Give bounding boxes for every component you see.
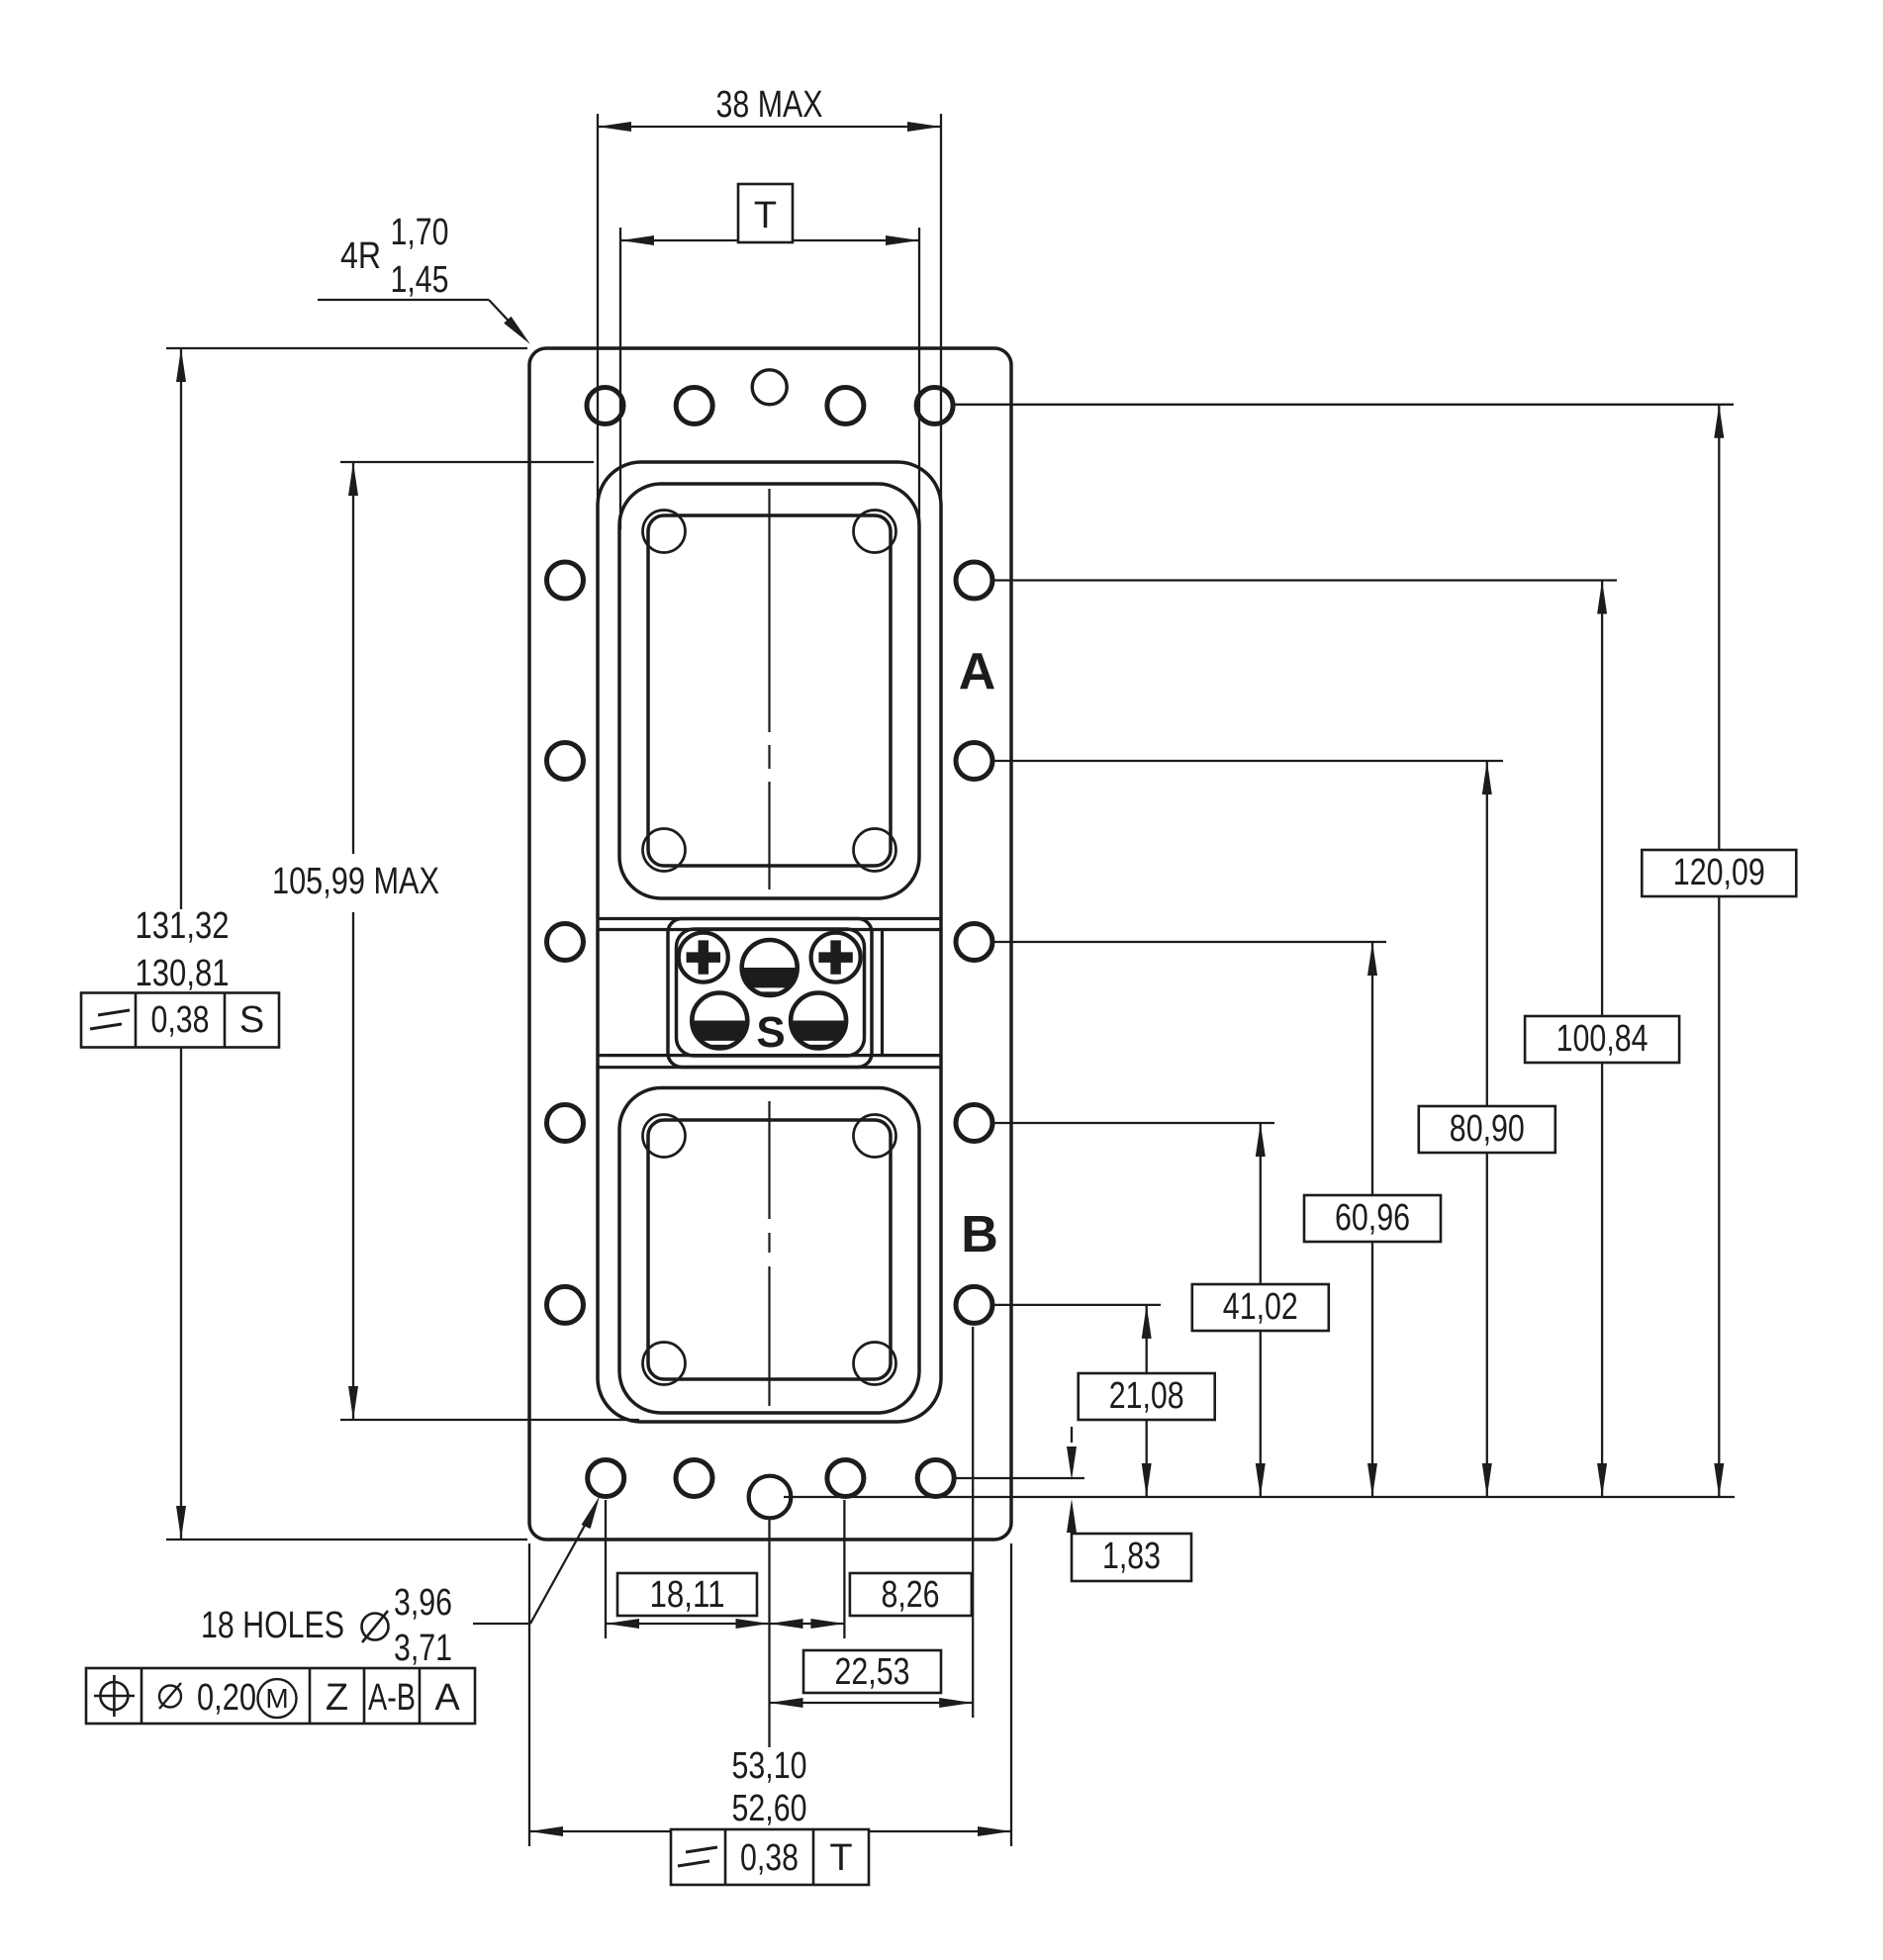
hole R4 right column	[956, 1105, 992, 1142]
dim 21,08 line and arrows	[1142, 1305, 1152, 1497]
extension line right hole column	[972, 1327, 974, 1718]
phillips screw right	[811, 933, 861, 982]
svg-text:B: B	[961, 1206, 998, 1263]
dim 18,11 line and arrows	[606, 1619, 770, 1629]
svg-text:S: S	[756, 1008, 785, 1057]
leader from hole R4	[992, 1122, 1274, 1124]
hole L1 left column	[547, 562, 584, 599]
svg-text:131,32: 131,32	[136, 905, 230, 947]
top index hole	[752, 370, 787, 405]
svg-text:53,10: 53,10	[732, 1745, 807, 1787]
hole L2 left column	[547, 743, 584, 780]
cavity B corner relief arcs	[643, 1115, 896, 1385]
dim 53,10 extension lines	[529, 1543, 1011, 1846]
dim 105,99 extension lines	[340, 462, 639, 1420]
svg-text:60,96: 60,96	[1335, 1197, 1410, 1239]
note 18 HOLES leader	[473, 1496, 600, 1624]
hole B2 bottom row	[676, 1460, 712, 1497]
svg-text:0,20: 0,20	[197, 1677, 256, 1719]
leader from hole R2	[992, 760, 1503, 762]
jackscrew insert inner box	[677, 929, 865, 1056]
leader from hole R3	[992, 941, 1386, 943]
dim 38 MAX line and arrows	[598, 122, 941, 132]
connector flange plate outline	[529, 348, 1011, 1540]
position symbol	[94, 1675, 135, 1717]
slotted jackscrew bottom right	[791, 993, 846, 1049]
svg-text:1,83: 1,83	[1102, 1536, 1161, 1577]
svg-text:1,70: 1,70	[391, 212, 449, 253]
dim 100,84 line and arrows	[1597, 581, 1607, 1498]
position tolerance frame	[86, 1668, 475, 1724]
ordinate baseline	[784, 1496, 1735, 1498]
svg-text:22,53: 22,53	[835, 1651, 910, 1693]
dim 18,11 box	[617, 1573, 757, 1616]
svg-text:A-B: A-B	[368, 1677, 416, 1719]
svg-text:S: S	[239, 999, 264, 1041]
svg-text:8,26: 8,26	[882, 1574, 940, 1616]
dim 21,08 box	[1079, 1373, 1215, 1420]
hole R2 right column	[956, 743, 992, 780]
svg-text:130,81: 130,81	[136, 953, 230, 994]
dim 105,99 line and arrows	[348, 462, 358, 1420]
dim 1,83 box	[1072, 1534, 1191, 1581]
dim 22,53 line and arrows	[770, 1698, 974, 1708]
extension line bottom index hole	[768, 1520, 770, 1747]
dim T extension lines	[620, 228, 919, 529]
hole R3 right column	[956, 924, 992, 961]
parallelism symbol	[90, 1010, 130, 1029]
svg-text:T: T	[754, 195, 777, 236]
svg-text:4R: 4R	[340, 235, 381, 277]
dim 22,53 box	[803, 1650, 941, 1693]
dim 80,90 box	[1419, 1106, 1555, 1153]
svg-text:105,99 MAX: 105,99 MAX	[272, 861, 439, 902]
hole H2 top row	[676, 388, 712, 424]
slotted jackscrew top center	[742, 940, 798, 995]
cavity A corner relief arcs	[643, 511, 896, 872]
svg-text:M: M	[265, 1683, 288, 1714]
cavity B centerline	[768, 1101, 770, 1406]
cavity B window frame	[619, 1088, 919, 1414]
svg-text:3,71: 3,71	[394, 1628, 452, 1669]
bottom index hole	[749, 1476, 792, 1519]
jackscrew insert outer box	[668, 919, 872, 1068]
dim 100,84 box	[1525, 1016, 1679, 1063]
mating face shell outline	[598, 462, 941, 1422]
svg-text:0,38: 0,38	[151, 999, 210, 1041]
svg-text:1,45: 1,45	[391, 259, 449, 301]
dim 120,09 line and arrows	[1714, 405, 1724, 1497]
svg-text:Z: Z	[326, 1677, 348, 1719]
dim 38 MAX extension lines	[598, 114, 941, 510]
hole R5 right column	[956, 1286, 992, 1323]
cavity B insert opening	[648, 1120, 891, 1379]
hole R1 right column	[956, 562, 992, 599]
cavity A window frame	[619, 484, 919, 898]
dim 131,32 extension lines	[166, 348, 527, 1540]
note 4R leader	[318, 300, 530, 344]
svg-text:120,09: 120,09	[1673, 852, 1765, 893]
hole H3 top row	[827, 388, 864, 424]
hole H4 top row	[916, 388, 953, 424]
svg-text:80,90: 80,90	[1450, 1108, 1525, 1150]
cavity A insert opening	[648, 515, 891, 866]
dim 120,09 box	[1642, 850, 1796, 896]
svg-text:41,02: 41,02	[1223, 1286, 1298, 1328]
svg-text:21,08: 21,08	[1109, 1375, 1184, 1417]
svg-text:A: A	[959, 643, 996, 700]
dim T line and arrows	[620, 235, 919, 245]
leader from hole H4	[955, 404, 1734, 406]
dim 41,02 line and arrows	[1256, 1123, 1266, 1497]
svg-text:18,11: 18,11	[650, 1574, 725, 1616]
leader from hole R1	[992, 579, 1617, 581]
hole B1 bottom row	[588, 1460, 624, 1497]
hole B4 bottom row	[917, 1460, 954, 1497]
hole B3 bottom row	[827, 1460, 864, 1497]
cavity A centerline	[768, 489, 770, 889]
slotted jackscrew bottom left	[692, 993, 747, 1049]
svg-text:38 MAX: 38 MAX	[716, 84, 823, 126]
svg-text:T: T	[829, 1837, 852, 1879]
svg-text:52,60: 52,60	[732, 1788, 807, 1829]
dim 60,96 box	[1304, 1195, 1441, 1242]
diameter symbol large	[362, 1611, 389, 1642]
leader from hole R5	[992, 1304, 1161, 1306]
hole L3 left column	[547, 924, 584, 961]
hole H1 top row	[587, 388, 623, 424]
extension line hole B1	[605, 1500, 607, 1638]
dim 41,02 box	[1192, 1284, 1329, 1331]
parallelism symbol bottom	[678, 1847, 717, 1866]
dim 131,32 line and arrows	[176, 348, 186, 1540]
center jackscrew bay rails	[598, 919, 941, 1068]
svg-text:100,84: 100,84	[1556, 1018, 1648, 1060]
hole L5 left column	[547, 1286, 584, 1323]
dim 1,83 arrows	[1067, 1427, 1077, 1533]
modifier M circle	[258, 1679, 297, 1718]
dim 8,26 box	[850, 1573, 972, 1616]
dim T box	[738, 184, 793, 242]
svg-text:A: A	[434, 1677, 460, 1719]
svg-text:3,96: 3,96	[394, 1582, 452, 1624]
svg-text:18 HOLES: 18 HOLES	[201, 1605, 344, 1646]
jackscrew insert key tab line	[881, 931, 884, 1056]
datum feature frame S	[81, 993, 279, 1048]
flatness frame T	[671, 1829, 869, 1885]
hole L4 left column	[547, 1105, 584, 1142]
dim 53,10 line and arrows	[529, 1826, 1011, 1836]
diameter symbol small	[159, 1683, 181, 1709]
extension line hole B3	[843, 1500, 845, 1638]
dim 60,96 line and arrows	[1367, 942, 1377, 1497]
svg-text:0,38: 0,38	[740, 1837, 799, 1879]
dim 80,90 line and arrows	[1482, 761, 1492, 1497]
leader from hole B4	[956, 1477, 1084, 1479]
phillips screw left	[679, 933, 728, 982]
dim 8,26 line and arrows	[770, 1619, 845, 1629]
